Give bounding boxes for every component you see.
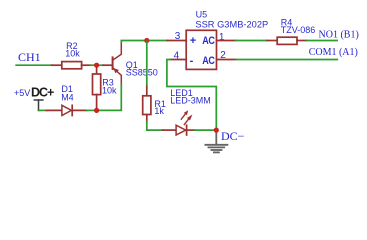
label DC+ (31, 86, 54, 100)
svg-text:LED-3MM: LED-3MM (170, 96, 211, 106)
svg-text:+: + (190, 35, 196, 47)
ground DC- (205, 132, 227, 153)
wire Q1 emitter down to D1 node (97, 84, 122, 110)
svg-text:M4: M4 (61, 92, 74, 102)
wire D1 to node (87, 109, 97, 111)
junction node top rail/R1 (144, 38, 149, 43)
wire Q1 collector to top rail (121, 41, 167, 43)
svg-text:TZV-086: TZV-086 (281, 25, 316, 35)
label Q1 (126, 60, 158, 78)
svg-text:DC−: DC− (221, 129, 245, 143)
resistor R2 (52, 62, 91, 69)
pin name +AC (190, 35, 215, 47)
pin 1 stub (217, 40, 236, 42)
wire pin4 bypass to DC- node (167, 60, 216, 131)
wire R1 feed from top rail (over text) (146, 41, 148, 86)
svg-text:SSR G3MB-202P: SSR G3MB-202P (195, 20, 268, 30)
label DC- (221, 129, 245, 143)
wire R2 to Q1 base (90, 64, 103, 66)
label R1 (154, 99, 166, 116)
svg-text:U5: U5 (196, 9, 208, 19)
svg-text:10k: 10k (65, 48, 80, 58)
svg-text:DC+: DC+ (31, 86, 54, 100)
label R2 (65, 41, 80, 58)
junction node DC- (214, 128, 219, 133)
resistor R3 (93, 65, 101, 110)
svg-text:+5V: +5V (14, 88, 30, 98)
pin name -AC (190, 55, 215, 67)
IC U5 SSR G3MB-202P box (186, 30, 216, 69)
wire LED to DC- node (195, 129, 217, 131)
pin number 4 (174, 51, 180, 62)
label R4 (281, 18, 316, 36)
pin 3 stub (167, 40, 186, 42)
junction node base (94, 63, 99, 68)
transistor Q1 (103, 42, 121, 85)
power port +5V DC+ (34, 100, 43, 110)
svg-text:CH1: CH1 (18, 50, 41, 64)
resistor R1 (143, 85, 151, 121)
wire R1 bottom to LED (147, 121, 163, 130)
diode D1 (47, 105, 87, 115)
svg-text:2: 2 (220, 50, 226, 61)
svg-text:1k: 1k (154, 106, 164, 116)
pin number 1 (219, 32, 225, 43)
label NO1 (B1) (319, 29, 359, 40)
pin number 2 (220, 50, 226, 61)
svg-text:AC: AC (202, 55, 215, 67)
svg-text:COM1 (A1): COM1 (A1) (309, 47, 358, 58)
svg-text:SS8550: SS8550 (126, 68, 158, 78)
svg-text:4: 4 (174, 51, 180, 62)
wire pin2 to COM1 (236, 59, 337, 61)
pin 2 stub (217, 59, 237, 61)
label CH1 (18, 50, 41, 64)
wire pin1 to R4 (236, 40, 268, 42)
svg-text:10k: 10k (102, 85, 117, 95)
label +5V (14, 88, 30, 98)
svg-text:1: 1 (219, 32, 225, 43)
label R3 (102, 78, 117, 96)
resistor R4 (267, 37, 306, 44)
junction node D1/R3 (94, 108, 99, 113)
wire power port to D1 (39, 109, 47, 111)
svg-text:NO1 (B1): NO1 (B1) (319, 29, 359, 40)
svg-text:3: 3 (175, 31, 181, 42)
label D1 (61, 84, 74, 102)
wire R4 to NO1 (307, 40, 338, 42)
LED LED1 (163, 110, 195, 135)
pin 4 stub (170, 59, 186, 61)
label LED1 (170, 88, 211, 106)
label COM1 (A1) (309, 47, 358, 58)
svg-text:AC: AC (202, 35, 215, 47)
label U5 (195, 9, 268, 29)
pin number 3 (175, 31, 181, 42)
wire CH1 to R2 (16, 64, 52, 66)
